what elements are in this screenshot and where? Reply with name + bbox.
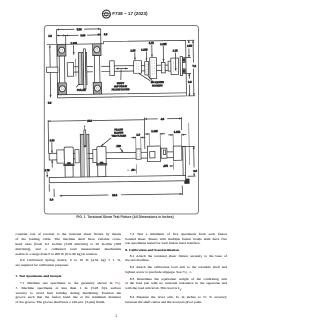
svg-text:PILLOW BLOCKS: PILLOW BLOCKS (112, 89, 130, 91)
elevation pulley with cable arrow (80, 134, 84, 177)
svg-text:SHAFT: SHAFT (117, 82, 125, 85)
svg-text:SLIP FITS IN: SLIP FITS IN (114, 86, 127, 88)
elevation torque block with square hole (147, 146, 160, 162)
elevation end block (173, 146, 182, 160)
plan view base plate right (103, 40, 186, 97)
collar left of pulley (67, 63, 74, 77)
svg-text:6.0: 6.0 (48, 102, 52, 105)
left pillow block plan (58, 44, 66, 56)
svg-text:SOCKETS: SOCKETS (152, 85, 163, 87)
elevation long shaft (106, 152, 136, 158)
svg-text:5/8 SQUARE: 5/8 SQUARE (151, 81, 164, 84)
block E plan with lip (168, 61, 171, 71)
elevation shaft piece (88, 153, 93, 158)
collar D plan (161, 62, 165, 73)
extension lines top (57, 29, 101, 45)
svg-text:1.25: 1.25 (130, 49, 136, 52)
plate bottom edges (58, 93, 187, 98)
svg-text:1.125: 1.125 (174, 131, 181, 134)
svg-text:1.125: 1.125 (160, 43, 167, 46)
figure caption (4, 215, 247, 219)
upright clamp foot (184, 179, 189, 184)
svg-text:3.0: 3.0 (193, 170, 197, 173)
dim 3.0 (182, 146, 196, 176)
dim 1.0 / 3.00 / 1.5 row (57, 34, 66, 36)
dim 4.0 elevation (144, 117, 182, 149)
header designation text (112, 11, 147, 16)
svg-text:.275: .275 (163, 165, 169, 168)
elevation collar with notch (161, 148, 167, 158)
svg-text:1.0: 1.0 (50, 198, 54, 201)
extension line right of end block (188, 123, 191, 165)
collar B plan (145, 61, 149, 74)
elevation right pillow block (97, 147, 106, 164)
elevation collar A (57, 150, 65, 163)
elevation square coupling (136, 149, 141, 159)
svg-text:7.0: 7.0 (192, 65, 196, 68)
elevation left pillow block (64, 147, 73, 164)
elevation collar C (93, 149, 97, 162)
dim 6.0 vertical (49, 45, 52, 97)
right column text (125, 233, 227, 237)
left column text (16, 233, 122, 237)
figure border box (44, 25, 198, 214)
shaft segments plan (74, 65, 169, 72)
coupling block A plan (134, 61, 142, 74)
right side dims 2.50 / 7.0 / 2.0 (185, 40, 195, 96)
svg-text:2.0: 2.0 (188, 81, 192, 84)
elevation shaft piece (73, 154, 75, 159)
dim 13.0 with 1.0 tick (49, 182, 182, 197)
shaft slip fits label (116, 67, 128, 69)
elevation shaft piece (141, 152, 147, 158)
elevation collar B (75, 150, 79, 163)
svg-text:1.75: 1.75 (173, 49, 179, 52)
svg-text:1.5: 1.5 (104, 33, 108, 36)
elevation shaft stub (49, 153, 57, 160)
svg-text:TWO PLACES: TWO PLACES (112, 134, 127, 137)
svg-text:BLOCKS: BLOCKS (114, 132, 123, 134)
svg-text:1.38: 1.38 (50, 139, 56, 142)
svg-text:PULLEY: PULLEY (77, 89, 87, 92)
page number (116, 314, 118, 318)
ASTM logo (0, 0, 243, 25)
elevation shaft piece (167, 152, 173, 158)
legs under blocks (65, 166, 73, 178)
svg-text:1.125: 1.125 (141, 48, 148, 51)
svg-text:4.0: 4.0 (161, 118, 165, 121)
svg-text:10.0: 10.0 (87, 120, 93, 123)
svg-text:3.00: 3.00 (80, 34, 86, 37)
dim 5.50 (57, 28, 101, 31)
svg-text:1.625: 1.625 (71, 42, 78, 45)
svg-text:1.0: 1.0 (136, 134, 140, 137)
base plate elevation (49, 175, 185, 182)
svg-text:1.75: 1.75 (149, 42, 155, 45)
svg-text:2.50: 2.50 (187, 45, 193, 48)
svg-text:5.50: 5.50 (77, 28, 83, 31)
collar right of right block (110, 61, 115, 76)
svg-text:1.125: 1.125 (151, 130, 158, 133)
shaft left stub plan (47, 67, 58, 72)
svg-text:1.0: 1.0 (48, 35, 52, 38)
plan view base plate left (47, 44, 104, 98)
svg-text:PILLOW: PILLOW (115, 129, 124, 131)
svg-text:13.0: 13.0 (112, 194, 118, 197)
block C plan (150, 58, 157, 79)
svg-text:1.75: 1.75 (45, 169, 51, 172)
pulley plan edge view (78, 52, 83, 84)
5/8 square sockets label (139, 74, 152, 81)
elevation socket upright (183, 146, 186, 176)
dim 10.0 elevation (47, 120, 49, 153)
figure 1 technical drawing (0, 0, 243, 325)
socket upright plan (180, 57, 183, 76)
right pillow block plan (93, 44, 101, 56)
svg-text:.750: .750 (116, 145, 122, 148)
